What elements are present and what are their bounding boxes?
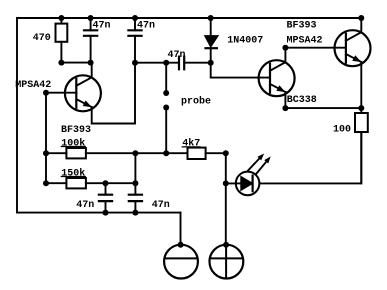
node dot Q2 emitter: [282, 105, 288, 111]
wire Q2 emitter down: [284, 92, 286, 108]
svg-text:BC338: BC338: [287, 95, 317, 106]
wire link x135 between rows: [134, 153, 136, 183]
junction dot C4 top: [103, 180, 109, 186]
wire terminal 1 lead: [180, 213, 182, 245]
wire C2 to Q1 emitter L: [92, 63, 135, 124]
junction dot C2 bottom / Q1 emitter net: [132, 60, 138, 66]
node dot Q1 base: [43, 90, 49, 96]
svg-text:1N4007: 1N4007: [227, 35, 263, 46]
svg-text:BF393: BF393: [61, 125, 91, 136]
junction dot C5 bottom on ground rail: [132, 210, 138, 216]
junction dot top rail at Q3 collector: [358, 15, 364, 21]
wire Q2 collector: [284, 48, 286, 63]
node dot 150k left: [43, 180, 49, 186]
capacitor C2 47n: [128, 18, 141, 63]
svg-text:470: 470: [33, 33, 51, 44]
junction dot top rail at C1: [88, 15, 94, 21]
terminal T1 negative: [164, 242, 198, 279]
wire left rail: [16, 18, 18, 213]
node dot 100k left: [43, 150, 49, 156]
capacitor C4 47n: [99, 183, 112, 212]
junction dot D1 cathode / Q2 base net: [208, 60, 214, 66]
resistor 470: [56, 18, 68, 63]
node dot x135 y153: [132, 150, 138, 156]
transistor Q1 MPSA42/BF393: [65, 75, 101, 111]
probe terminals: [163, 63, 169, 154]
resistor 4k7: [188, 148, 226, 159]
terminal T2 positive: [210, 242, 244, 279]
wire node row y62 mid: [135, 62, 166, 64]
wire emitter rail to R100: [285, 107, 361, 109]
junction dot probe top / C3 left: [163, 60, 169, 66]
svg-text:100: 100: [333, 125, 351, 136]
node dot LED anode: [223, 180, 229, 186]
svg-text:47n: 47n: [168, 50, 186, 61]
wire bottom rail: [17, 212, 181, 214]
junction dot C4 bottom on ground rail: [103, 210, 109, 216]
junction dot top rail at C2: [132, 15, 138, 21]
junction dot R470 bottom: [58, 60, 64, 66]
resistor R 100: [355, 108, 368, 183]
wire 4k7 down to LED node: [225, 153, 227, 183]
LED D2: [236, 154, 271, 196]
resistor 100k: [46, 148, 135, 158]
svg-text:47n: 47n: [93, 20, 111, 31]
junction dot top rail at D1: [208, 15, 214, 21]
node dot Q3 emitter junction: [358, 105, 364, 111]
svg-text:47n: 47n: [76, 200, 94, 211]
svg-text:MPSA42: MPSA42: [287, 35, 323, 46]
wire node row y62 left: [61, 62, 91, 64]
svg-text:47n: 47n: [137, 20, 155, 31]
capacitor C3 47n coupling: [166, 57, 211, 70]
svg-text:100k: 100k: [61, 137, 85, 149]
wire LED cathode to R100: [259, 132, 361, 183]
node dot 4k7 corner: [223, 150, 229, 156]
junction dot C5 top: [132, 180, 138, 186]
wire D1 to Q2 base: [211, 63, 270, 78]
wire Q1 base: [46, 92, 76, 94]
wire Q1 collector: [76, 63, 91, 86]
node dot probe y153: [163, 150, 169, 156]
capacitor C5 47n: [129, 183, 142, 212]
svg-text:47n: 47n: [152, 200, 170, 211]
transistor Q2 BC338: [259, 60, 295, 96]
svg-text:probe: probe: [181, 95, 211, 107]
wire 100k to probe node: [135, 152, 166, 154]
svg-text:MPSA42: MPSA42: [15, 80, 51, 91]
svg-text:4k7: 4k7: [182, 138, 200, 150]
resistor 150k: [46, 178, 135, 188]
svg-text:150k: 150k: [61, 167, 85, 179]
wire probe node to 4k7: [166, 152, 187, 154]
junction dot C1 bottom / Q1 collector: [88, 60, 94, 66]
wire LED node down to terminal 2: [225, 183, 227, 244]
svg-text:BF393: BF393: [287, 20, 317, 31]
capacitor C1 47n: [84, 18, 97, 63]
wire top supply rail: [17, 17, 361, 19]
wire Q1 base to 100k/150k column: [45, 93, 47, 184]
wire Q3 emitter down: [360, 62, 362, 108]
node dot Q2 collector: [282, 45, 288, 51]
diode D1 1N4007: [205, 18, 218, 63]
wire Q2 collector to Q3 base: [285, 47, 346, 49]
junction dot top rail at R470: [58, 15, 64, 21]
wire LED anode lead: [226, 182, 241, 184]
transistor Q3 MPSA42: [335, 18, 371, 66]
